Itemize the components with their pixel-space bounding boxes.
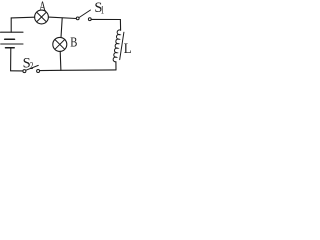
- switch S2 left contact: [23, 70, 26, 73]
- label L: [124, 41, 132, 57]
- switch S2 right contact: [37, 70, 40, 73]
- inductor L coil (7 bumps): [113, 30, 120, 62]
- wire bottom middle: [40, 69, 116, 72]
- inductor core line: [120, 32, 124, 59]
- wire lampB bottom lead: [59, 51, 62, 70]
- label A: [39, 0, 46, 14]
- label S1: [94, 0, 104, 17]
- label S2: [23, 55, 34, 71]
- wire left vertical (battery top lead): [10, 18, 12, 32]
- lamp A: [35, 10, 49, 24]
- battery cell1 short plate: [5, 38, 15, 40]
- wire lampA to switch S1: [48, 17, 76, 18]
- lamp B: [53, 37, 67, 51]
- svg-text:L: L: [124, 41, 132, 57]
- wire battery bottom lead: [10, 48, 12, 71]
- wire top-left horizontal: [11, 16, 35, 19]
- battery cell1 long plate: [1, 31, 24, 33]
- battery cell2 long plate: [1, 43, 23, 45]
- svg-text:2: 2: [30, 60, 34, 71]
- wire bottom-left horizontal: [11, 70, 23, 72]
- svg-text:1: 1: [101, 4, 105, 17]
- svg-text:B: B: [70, 34, 77, 49]
- wire S1 to top-right corner: [91, 18, 120, 20]
- wire coil to bottom-right corner: [115, 62, 117, 70]
- battery cell2 short plate: [6, 47, 15, 49]
- switch S1 lever: [79, 10, 90, 18]
- switch S2 lever: [26, 65, 38, 70]
- wire right vertical to coil: [119, 20, 121, 31]
- switch S1 left contact: [76, 17, 79, 20]
- switch S1 right contact: [88, 18, 91, 21]
- label B: [70, 34, 77, 49]
- node junction top: [61, 18, 62, 38]
- svg-text:A: A: [39, 0, 46, 14]
